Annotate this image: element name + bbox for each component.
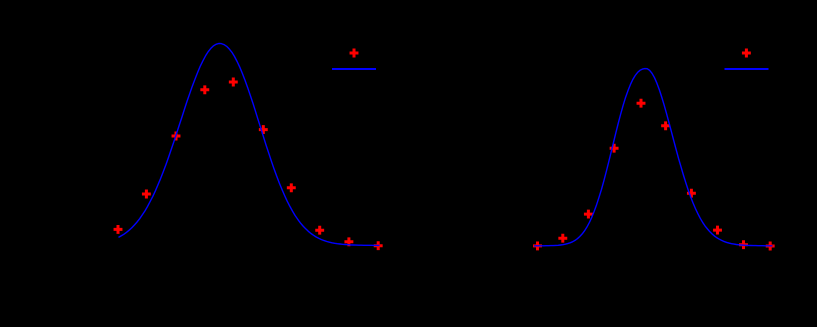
- right plot fitted curve: [534, 69, 773, 246]
- left plot fitted curve: [119, 44, 380, 246]
- right plot legend line: [725, 68, 769, 70]
- right plot legend point marker: [742, 49, 751, 58]
- left plot legend point marker: [350, 49, 359, 58]
- right plot data points (red plus markers): [533, 99, 775, 251]
- left plot legend line: [332, 68, 376, 70]
- left plot data points (red plus markers): [114, 78, 383, 251]
